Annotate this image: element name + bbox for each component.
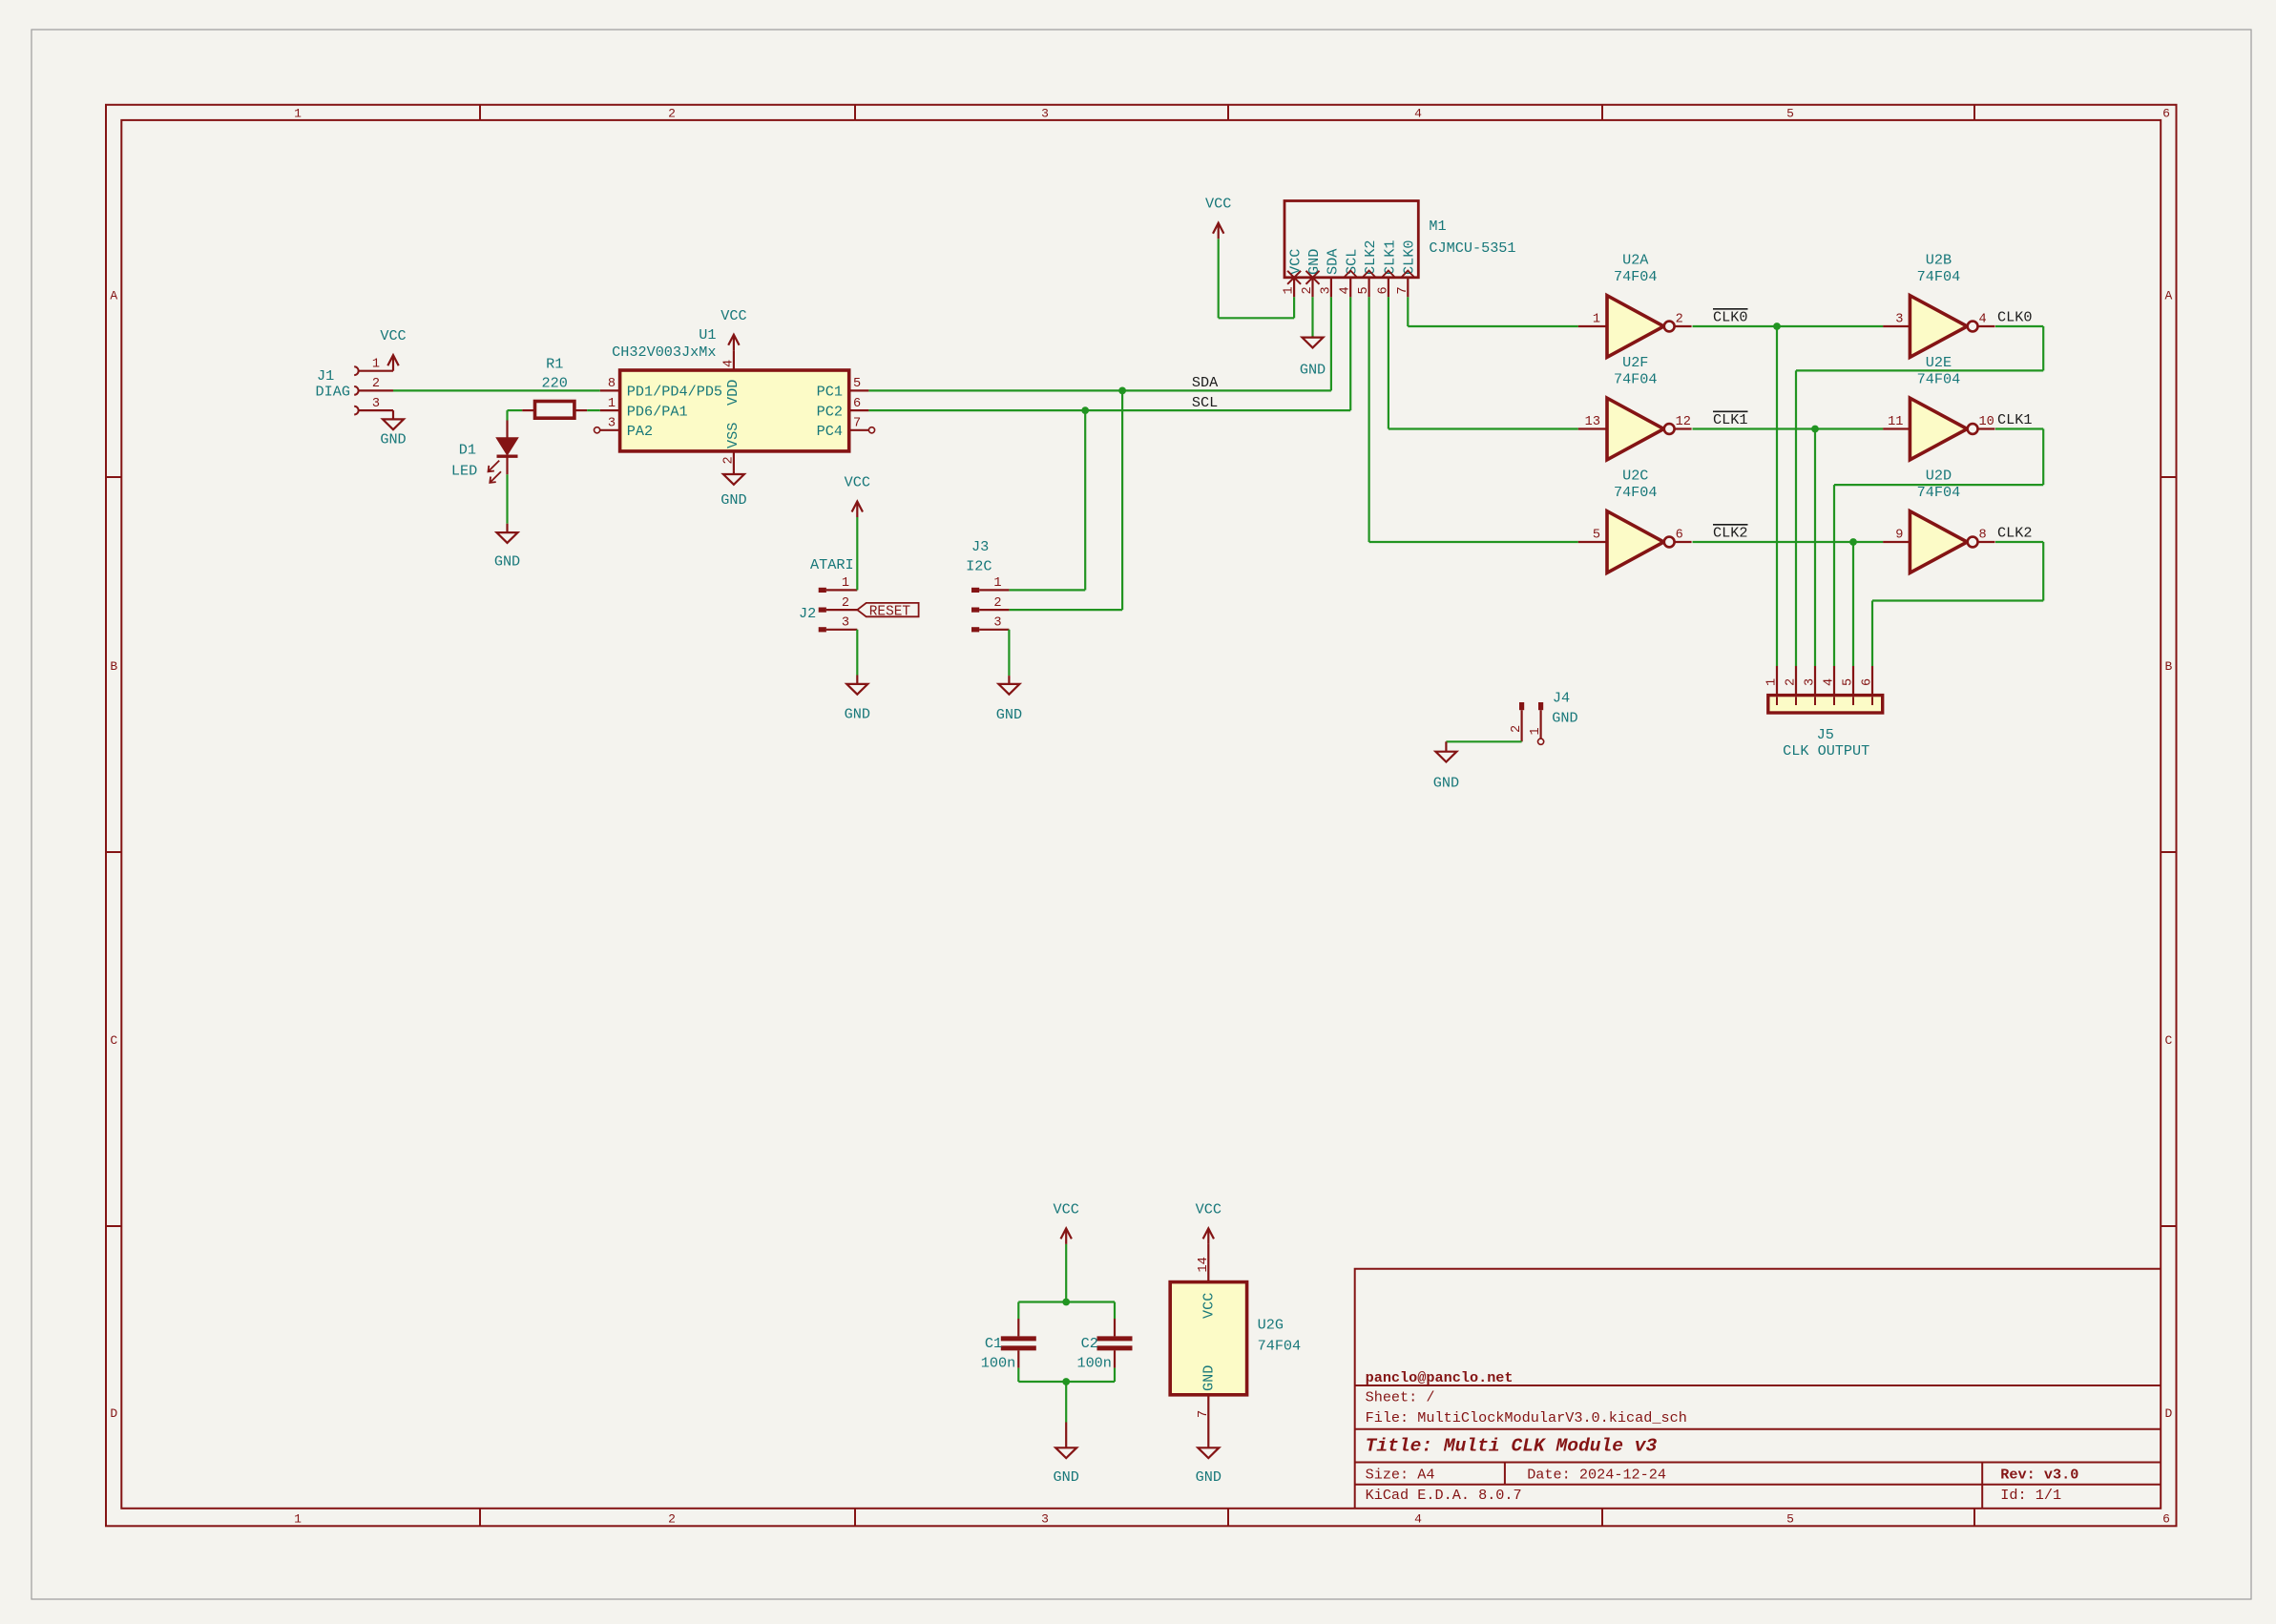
svg-text:I2C: I2C [966, 558, 992, 575]
svg-text:KiCad E.D.A. 8.0.7: KiCad E.D.A. 8.0.7 [1366, 1487, 1522, 1504]
wire J3.3 to GND [1008, 630, 1010, 676]
wire J3.2 to SDA [1121, 390, 1123, 610]
svg-text:U2F: U2F [1622, 354, 1648, 371]
wire D1 to GND [506, 474, 508, 523]
svg-text:VCC: VCC [1205, 196, 1231, 213]
power VCC at M1 [1213, 223, 1223, 239]
svg-text:PD1/PD4/PD5: PD1/PD4/PD5 [627, 384, 722, 401]
inverter U2D 74F04 [1883, 468, 1994, 573]
power GND at J4 [1435, 741, 1456, 761]
svg-text:CLK2: CLK2 [1997, 524, 2032, 541]
svg-text:GND: GND [1305, 249, 1323, 275]
junction cap bottom rail [1062, 1378, 1070, 1385]
svg-text:100n: 100n [1076, 1354, 1111, 1371]
svg-text:2: 2 [1676, 312, 1683, 326]
svg-text:1: 1 [372, 358, 380, 372]
svg-text:D: D [2164, 1406, 2172, 1421]
wire cap top rail [1018, 1301, 1115, 1302]
svg-text:GND: GND [845, 706, 870, 723]
svg-text:7: 7 [1396, 286, 1410, 294]
wire LED node to R1 [508, 409, 523, 411]
svg-text:GND: GND [1433, 775, 1459, 792]
svg-text:100n: 100n [981, 1354, 1015, 1371]
module M1 CJMCU-5351 [1283, 201, 1516, 298]
svg-text:VCC: VCC [1196, 1200, 1222, 1218]
svg-text:GND: GND [1200, 1365, 1217, 1391]
svg-text:6: 6 [2162, 1511, 2170, 1526]
inverter U2B 74F04 [1883, 252, 1994, 358]
svg-text:5: 5 [1357, 286, 1371, 294]
svg-text:J4: J4 [1553, 689, 1570, 706]
svg-text:U2G: U2G [1258, 1317, 1284, 1334]
svg-text:4: 4 [1414, 1511, 1422, 1526]
svg-text:CLK0: CLK0 [1401, 240, 1418, 275]
svg-text:10: 10 [1979, 415, 1994, 429]
wire SCL up to M1 pin4 [1349, 297, 1351, 410]
wire SDA up to M1 pin3 [1330, 297, 1332, 390]
svg-text:VCC: VCC [380, 327, 406, 344]
svg-text:2: 2 [1510, 725, 1524, 733]
svg-text:CLK1: CLK1 [1713, 411, 1747, 428]
power GND at J1 pin3 [383, 410, 404, 429]
svg-text:U1: U1 [699, 326, 716, 344]
power VCC at C1/C2 [1061, 1228, 1072, 1244]
svg-text:CLK0: CLK0 [1997, 308, 2032, 325]
svg-text:3: 3 [1895, 312, 1903, 326]
svg-text:220: 220 [542, 375, 568, 392]
svg-text:7: 7 [1197, 1410, 1211, 1418]
svg-text:B: B [110, 659, 117, 674]
gate U2G 74F04 power unit [1170, 1244, 1301, 1447]
pin chevrons M1 pins 4-7 [1344, 271, 1414, 278]
wire U2A out row [1693, 325, 1884, 327]
svg-text:8: 8 [608, 377, 616, 391]
inverter U2A 74F04 [1578, 252, 1692, 358]
svg-text:1: 1 [1593, 312, 1600, 326]
svg-text:C: C [110, 1033, 117, 1048]
svg-text:11: 11 [1888, 415, 1903, 429]
power GND at U2G [1198, 1447, 1219, 1458]
wire CLK0 return U2B to J5.2 [1995, 325, 2043, 327]
svg-text:Size: A4: Size: A4 [1366, 1467, 1435, 1484]
svg-text:74F04: 74F04 [1614, 371, 1658, 388]
wire CLK1 return U2E to J5.4 [1995, 427, 2043, 429]
sheet frame outer [106, 105, 2177, 1527]
svg-text:VCC: VCC [720, 307, 746, 324]
svg-text:GND: GND [720, 491, 746, 509]
power GND at J3 [998, 676, 1019, 695]
svg-text:1: 1 [608, 397, 616, 411]
svg-text:3: 3 [1041, 1511, 1049, 1526]
connector J5 CLK OUTPUT [1765, 666, 1883, 760]
wire CLK1bar to J5.3 [1814, 429, 1816, 667]
wire M1 VCC [1293, 297, 1295, 318]
svg-text:A: A [110, 289, 117, 303]
wire rail to GND [1065, 1382, 1067, 1423]
wire down to D1 [506, 410, 508, 420]
svg-text:6: 6 [2162, 106, 2170, 120]
svg-text:CJMCU-5351: CJMCU-5351 [1429, 239, 1515, 257]
svg-text:VCC: VCC [845, 474, 870, 491]
svg-text:SDA: SDA [1324, 248, 1341, 275]
wire CLK0bar to J5.1 [1776, 326, 1778, 666]
svg-text:VCC: VCC [1200, 1293, 1217, 1319]
svg-text:A: A [2164, 289, 2172, 303]
svg-text:1: 1 [842, 576, 849, 591]
svg-text:B: B [2164, 659, 2172, 674]
svg-text:U2C: U2C [1622, 468, 1648, 485]
svg-text:5: 5 [1593, 528, 1600, 542]
wire VCC to rail [1065, 1244, 1067, 1302]
svg-text:U2B: U2B [1926, 252, 1952, 269]
connector J4 GND [1510, 689, 1578, 744]
power GND at C1/C2 [1065, 1423, 1067, 1448]
svg-text:4: 4 [1823, 678, 1837, 686]
no-connect X at M1 pin1 [1287, 271, 1301, 284]
junction SDA/J3.2 [1118, 387, 1126, 395]
power GND at M1 [1303, 336, 1324, 347]
svg-text:74F04: 74F04 [1917, 484, 1961, 501]
svg-text:CLK2: CLK2 [1713, 524, 1747, 541]
frame row ticks [106, 476, 121, 478]
power VCC at J2 [852, 502, 863, 518]
wire J2.3 to GND [856, 630, 858, 676]
wire SCL [868, 409, 1350, 411]
svg-text:C1: C1 [985, 1335, 1002, 1352]
svg-text:2: 2 [1301, 286, 1315, 294]
svg-text:4: 4 [1339, 286, 1353, 294]
svg-text:J5: J5 [1817, 726, 1834, 743]
wire cap bottom rail [1017, 1368, 1019, 1382]
svg-text:panclo@panclo.net: panclo@panclo.net [1366, 1369, 1514, 1386]
svg-text:SCL: SCL [1192, 394, 1218, 411]
svg-text:2: 2 [1785, 678, 1799, 686]
svg-text:Rev: v3.0: Rev: v3.0 [2000, 1467, 2078, 1484]
svg-text:6: 6 [1376, 286, 1390, 294]
wire U2F out row [1693, 427, 1884, 429]
svg-text:5: 5 [853, 377, 861, 391]
svg-text:PC2: PC2 [817, 403, 843, 420]
wire U2C out row [1693, 541, 1884, 543]
junction CLK0bar [1773, 323, 1781, 330]
svg-text:GND: GND [494, 553, 520, 571]
wire M1 CLK0 to U2A [1407, 297, 1409, 326]
svg-text:CLK0: CLK0 [1713, 308, 1747, 325]
svg-text:U2A: U2A [1622, 252, 1649, 269]
svg-text:3: 3 [1041, 106, 1049, 120]
svg-text:R1: R1 [546, 356, 563, 373]
svg-text:1: 1 [1529, 727, 1543, 735]
svg-text:GND: GND [996, 706, 1022, 723]
svg-text:GND: GND [1196, 1468, 1222, 1486]
svg-text:GND: GND [380, 430, 406, 448]
no-connect X at M1 pin2 [1306, 271, 1320, 284]
svg-text:CH32V003JxMx: CH32V003JxMx [612, 344, 716, 361]
svg-text:Sheet: /: Sheet: / [1366, 1389, 1435, 1406]
svg-text:12: 12 [1676, 415, 1691, 429]
svg-text:14: 14 [1197, 1257, 1211, 1272]
svg-text:74F04: 74F04 [1917, 268, 1961, 285]
svg-text:D1: D1 [459, 442, 476, 459]
svg-text:PD6/PA1: PD6/PA1 [627, 403, 688, 420]
svg-text:3: 3 [608, 417, 616, 431]
svg-text:DIAG: DIAG [316, 384, 350, 401]
svg-text:PC4: PC4 [817, 423, 843, 440]
svg-text:Date: 2024-12-24: Date: 2024-12-24 [1527, 1467, 1666, 1484]
svg-text:13: 13 [1585, 415, 1600, 429]
svg-text:6: 6 [853, 397, 861, 411]
power VCC at J1 pin1 [387, 355, 398, 371]
svg-text:2: 2 [372, 377, 380, 391]
svg-text:2: 2 [721, 456, 736, 464]
global label RESET [857, 603, 918, 619]
wire J3.1 to SCL [1084, 410, 1086, 590]
connector J2 ATARI [799, 556, 857, 632]
svg-text:1: 1 [294, 106, 302, 120]
svg-text:U2E: U2E [1926, 354, 1952, 371]
svg-text:RESET: RESET [869, 604, 911, 619]
svg-text:1: 1 [1765, 678, 1780, 686]
svg-text:M1: M1 [1429, 218, 1446, 235]
svg-text:8: 8 [1979, 528, 1987, 542]
junction CLK1bar [1811, 426, 1819, 433]
power GND at D1 [497, 524, 518, 543]
svg-text:Id: 1/1: Id: 1/1 [2000, 1487, 2061, 1504]
junction SCL/J3.1 [1081, 406, 1089, 414]
wire J1.2 to U1 PD1 [393, 389, 600, 391]
svg-text:3: 3 [1319, 286, 1333, 294]
svg-text:VCC: VCC [1287, 249, 1305, 275]
svg-text:CLK OUTPUT: CLK OUTPUT [1783, 742, 1869, 760]
power VCC at U1 VDD [728, 335, 739, 351]
svg-text:9: 9 [1895, 528, 1903, 542]
svg-text:4: 4 [1414, 106, 1422, 120]
svg-text:D: D [110, 1406, 117, 1421]
svg-text:J1: J1 [317, 367, 334, 385]
wire M1 CLK2 to U2C [1368, 297, 1369, 542]
svg-text:74F04: 74F04 [1614, 268, 1658, 285]
capacitor C2 100n [1076, 1302, 1132, 1372]
IC U1 CH32V003JxMx [595, 326, 875, 470]
power GND at U1 VSS [723, 471, 744, 485]
connector J1 DIAG [316, 358, 394, 415]
frame column ticks [479, 105, 481, 120]
wire J2.1 to VCC [856, 517, 858, 590]
title block [1355, 1269, 2161, 1509]
svg-text:File: MultiClockModularV3.0.ki: File: MultiClockModularV3.0.kicad_sch [1366, 1409, 1687, 1426]
sheet frame inner [121, 120, 2161, 1509]
svg-text:LED: LED [451, 462, 477, 479]
svg-text:3: 3 [993, 616, 1001, 631]
svg-text:5: 5 [1842, 678, 1856, 686]
svg-text:U2D: U2D [1926, 468, 1952, 485]
wire M1 CLK1 to U2F [1388, 297, 1389, 428]
svg-text:5: 5 [1786, 106, 1794, 120]
svg-text:CLK2: CLK2 [1362, 240, 1379, 275]
svg-text:C: C [2164, 1033, 2172, 1048]
svg-text:3: 3 [1804, 678, 1818, 686]
LED D1 [451, 421, 518, 483]
svg-text:C2: C2 [1081, 1335, 1098, 1352]
svg-text:6: 6 [1676, 528, 1683, 542]
svg-text:2: 2 [842, 596, 849, 611]
svg-text:PA2: PA2 [627, 423, 653, 440]
svg-text:2: 2 [668, 1511, 676, 1526]
svg-text:1: 1 [294, 1511, 302, 1526]
svg-text:J2: J2 [799, 605, 816, 622]
svg-text:CLK1: CLK1 [1997, 411, 2032, 428]
svg-text:74F04: 74F04 [1258, 1338, 1302, 1355]
inverter U2C 74F04 [1578, 468, 1692, 573]
inverter U2E 74F04 [1883, 354, 1994, 460]
wire SDA [868, 389, 1331, 391]
svg-text:4: 4 [721, 360, 736, 367]
connector J3 I2C [966, 538, 1009, 632]
svg-text:VDD: VDD [724, 380, 741, 406]
inverter U2F 74F04 [1578, 354, 1692, 460]
svg-text:GND: GND [1552, 709, 1577, 726]
svg-text:3: 3 [842, 616, 849, 631]
wire R1 to U1 PD6 [587, 409, 600, 411]
wire CLK2bar to J5.5 [1852, 542, 1854, 666]
svg-text:J3: J3 [971, 538, 989, 555]
junction cap top rail [1062, 1299, 1070, 1306]
svg-text:4: 4 [1979, 312, 1987, 326]
wire CLK2 return U2D to J5.6 [1995, 541, 2043, 543]
svg-text:ATARI: ATARI [810, 556, 854, 573]
svg-text:1: 1 [1283, 286, 1297, 294]
power VCC at U2G [1203, 1228, 1214, 1244]
svg-text:5: 5 [1786, 1511, 1794, 1526]
svg-text:GND: GND [1300, 362, 1326, 379]
wire M1 GND [1311, 297, 1313, 337]
svg-text:SDA: SDA [1192, 374, 1219, 391]
svg-text:2: 2 [668, 106, 676, 120]
svg-text:CLK1: CLK1 [1381, 240, 1398, 275]
svg-text:6: 6 [1861, 678, 1875, 686]
svg-text:2: 2 [993, 596, 1001, 611]
svg-text:1: 1 [993, 576, 1001, 591]
svg-text:7: 7 [853, 417, 861, 431]
svg-text:74F04: 74F04 [1917, 371, 1961, 388]
junction CLK2bar [1849, 538, 1857, 546]
svg-text:74F04: 74F04 [1614, 484, 1658, 501]
resistor R1 220 [522, 356, 587, 419]
svg-text:PC1: PC1 [817, 384, 843, 401]
svg-text:3: 3 [372, 397, 380, 411]
capacitor C1 100n [981, 1302, 1036, 1372]
svg-text:VCC: VCC [1054, 1200, 1079, 1218]
svg-text:VSS: VSS [724, 423, 741, 448]
svg-text:Title: Multi CLK Module v3: Title: Multi CLK Module v3 [1366, 1436, 1658, 1457]
svg-text:GND: GND [1054, 1468, 1079, 1486]
wire J4.2 to GND [1446, 740, 1521, 742]
power GND at J2 [846, 676, 867, 695]
